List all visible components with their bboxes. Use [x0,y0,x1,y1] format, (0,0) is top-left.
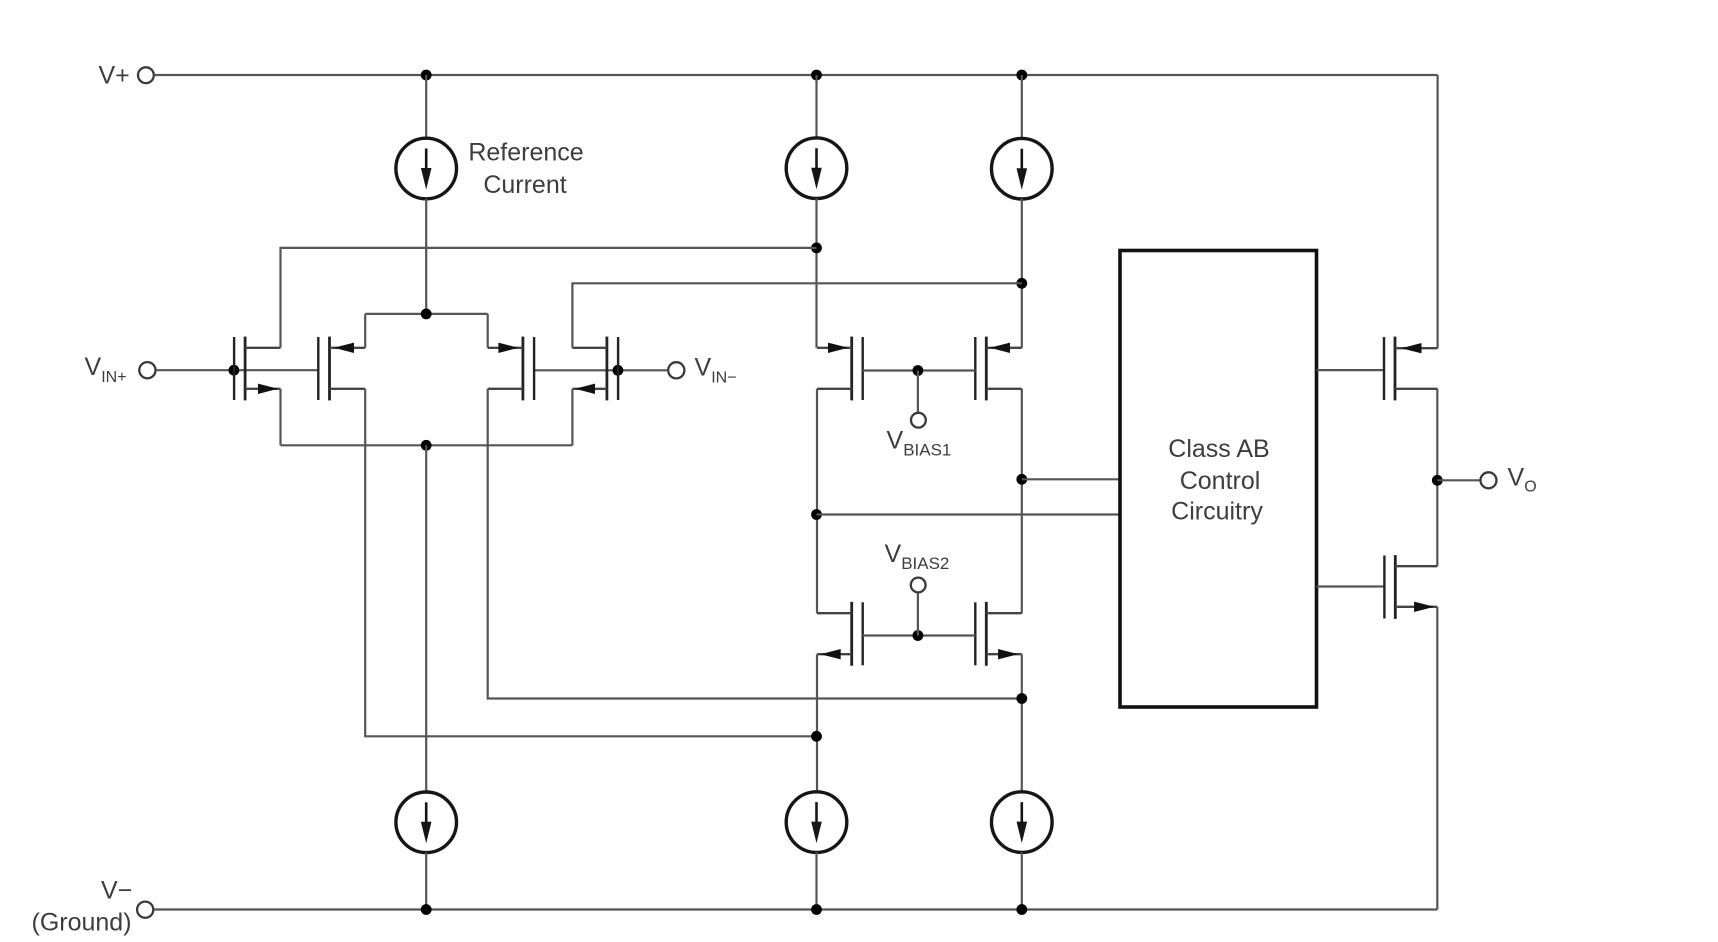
svg-text:Current: Current [483,171,566,199]
transistor M8 (lower cascode right) [975,602,1022,666]
svg-text:Control: Control [1180,467,1261,495]
node junction dot V- rail below I5 [811,904,822,915]
node junction dot V- rail below I6 [1016,904,1027,915]
wire gates of M5,M6 common node [863,369,976,371]
node junction dot I2 line / M1 drain wire [811,243,822,254]
wire I4 to V- rail [425,852,427,909]
wire PMOS pair tail (common sources of M2,M3) [365,313,488,315]
node junction dot upper cascode gate node [913,365,924,376]
wire M3 drain down to node (1021.8,698.5) [488,389,1022,699]
wire M8 source down to current source I6 [1021,654,1023,792]
current source I6 [992,792,1053,853]
node VIN+ terminal [139,362,155,378]
wire NMOS pair tail (common sources of M1,M4) [281,444,573,446]
node VBIAS1 terminal [911,413,926,428]
wire M4 source down to NMOS tail [571,389,573,446]
wire I1 output down to PMOS pair tail [425,199,427,314]
wire box output to gate of output PMOS M9 [1317,369,1385,371]
svg-text:Reference: Reference [468,139,583,167]
node junction dot lower cascode gate node [913,630,924,641]
svg-text:V+: V+ [99,62,130,90]
wire gates of M7,M8 common node [863,634,976,636]
wire stub to VBIAS2 terminal [917,592,919,635]
wire NMOS tail down to current source I4 [425,445,427,792]
wire I2 output down to cascode M5 source, through node at y=248 [815,199,817,348]
node junction dot on V+ rail above I2 [811,70,822,81]
wire from rail to current source I3 [1021,75,1023,139]
transistor M9 (output PMOS) [1384,337,1438,401]
current source I1 (Reference Current) [396,138,457,199]
node VIN- terminal [668,362,684,378]
wire M1 source down to NMOS tail [279,389,281,446]
node junction dot on M1 gate [229,365,240,376]
node V+ terminal [138,67,154,83]
node junction dot M3 drain / I6 line [1016,693,1027,704]
wire M7 source down to current source I5 [816,654,818,792]
node junction dot NMOS tail [421,440,432,451]
wire I3 output down to cascode M6 source, through node at y=283 [1021,199,1023,348]
wire M1 drain up and across to node (816.5,248) [281,248,817,348]
box U1 Class AB Control Circuitry [1120,251,1317,708]
node junction dot V- rail below I4 [421,904,432,915]
wire M5 drain down to lower cascode M7, with tap to Class AB box [816,389,818,613]
node junction dot M6/M8 node to box [1016,474,1027,485]
wire top V+ rail [154,74,1437,76]
node junction dot I3 line / M4 drain wire [1016,278,1027,289]
transistor M7 (lower cascode left) [817,602,863,666]
transistor M6 (upper cascode right) [975,337,1022,401]
wire bottom V- rail [154,908,1438,910]
svg-text:Circuitry: Circuitry [1171,498,1263,526]
node junction dot VO [1432,475,1443,486]
node junction dot M2 drain / I5 line [811,731,822,742]
wire from rail to current source I2 [815,75,817,138]
transistor M3 (PMOS input, gate VIN-) [488,337,534,401]
node junction dot M5/M7 node to box [811,509,822,520]
node junction dot on M4 gate [613,365,624,376]
current source I3 [992,138,1053,199]
wire VO node to terminal [1437,479,1480,481]
node V- terminal [137,902,153,918]
wire M4 drain up and across to node (1021.8,283) [572,283,1021,348]
wire box output to gate of output NMOS M10 [1317,585,1385,587]
wire M3 source up to PMOS tail [487,314,489,348]
wire VIN- input to gates of M3 and M4 [534,369,668,371]
transistor M2 (PMOS input, gate VIN+) [318,337,365,401]
transistor M4 (NMOS input, gate VIN-) [572,337,618,401]
svg-text:(Ground): (Ground) [32,909,132,937]
wire M9 drain down to VO node [1436,389,1438,566]
wire from rail to reference current source I1 [425,75,427,138]
node junction dot on V+ rail above I1 [421,70,432,81]
current source I2 [786,138,847,199]
wire I6 to V- rail [1021,852,1023,909]
wire M6 drain down to lower cascode M8, with tap to Class AB box [1021,389,1023,613]
wire I5 to V- rail [815,852,817,909]
transistor M10 (output NMOS) [1384,555,1437,619]
wire VIN+ input to gates of M1 and M2 [156,369,318,371]
current source I4 [396,792,457,853]
svg-text:Class AB: Class AB [1168,435,1269,463]
wire node to Class AB box (upper input) [1022,478,1120,480]
transistor M5 (upper cascode left) [817,337,863,401]
wire V+ rail down to output PMOS source [1436,75,1438,348]
svg-text:V−: V− [101,877,132,905]
wire M10 source down to V- rail [1436,607,1438,910]
node junction dot on V+ rail above I3 [1016,70,1027,81]
node VO terminal [1481,472,1497,488]
wire M2 source up to PMOS tail [364,314,366,348]
transistor M1 (NMOS input, gate VIN+) [234,337,280,401]
current source I5 [786,792,847,853]
wire stub to VBIAS1 terminal [917,371,919,413]
wire M2 drain down to node (816.5,736) [365,389,816,737]
node junction dot PMOS tail [421,309,432,320]
node VBIAS2 terminal [911,578,926,593]
wire node to Class AB box (lower input) [817,513,1121,515]
